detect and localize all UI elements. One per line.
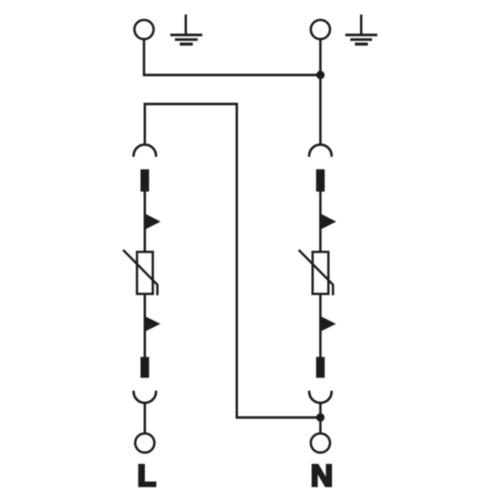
svg-text:N: N bbox=[311, 458, 333, 493]
svg-text:L: L bbox=[137, 458, 156, 493]
